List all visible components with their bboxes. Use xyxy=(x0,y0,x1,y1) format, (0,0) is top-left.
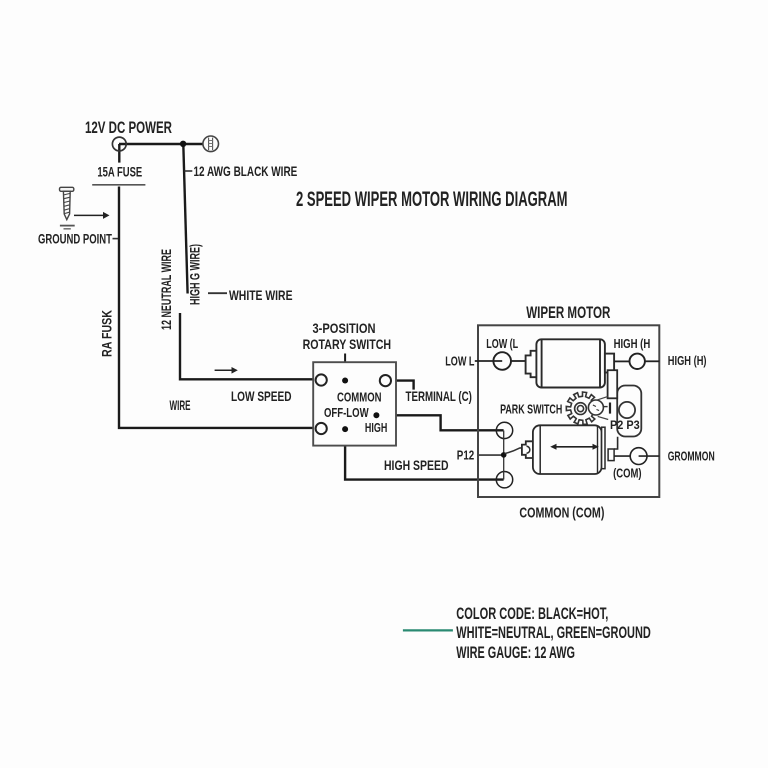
svg-text:WIPER MOTOR: WIPER MOTOR xyxy=(526,304,610,322)
svg-text:LOW L: LOW L xyxy=(445,354,474,369)
svg-text:(COM): (COM) xyxy=(613,466,642,481)
svg-text:HIGH G WIRE): HIGH G WIRE) xyxy=(187,244,203,305)
svg-text:WHITE WIRE: WHITE WIRE xyxy=(229,287,293,303)
svg-text:P12: P12 xyxy=(457,447,474,462)
svg-text:COLOR CODE: BLACK=HOT,: COLOR CODE: BLACK=HOT, xyxy=(456,605,608,623)
svg-text:ROTARY SWITCH: ROTARY SWITCH xyxy=(303,336,392,352)
svg-text:WHITE=NEUTRAL, GREEN=GROUND: WHITE=NEUTRAL, GREEN=GROUND xyxy=(456,624,651,642)
svg-text:TERMINAL (C): TERMINAL (C) xyxy=(406,388,472,404)
svg-text:GROUND POINT: GROUND POINT xyxy=(38,231,113,246)
svg-text:LOW SPEED: LOW SPEED xyxy=(231,388,292,404)
svg-text:WIRE GAUGE: 12 AWG: WIRE GAUGE: 12 AWG xyxy=(456,644,575,662)
svg-text:RA FUSK: RA FUSK xyxy=(99,310,115,357)
svg-text:P2 P3: P2 P3 xyxy=(610,418,640,432)
svg-text:12V DC POWER: 12V DC POWER xyxy=(85,118,172,137)
svg-text:HIGH SPEED: HIGH SPEED xyxy=(384,457,449,473)
svg-text:HIGH (H): HIGH (H) xyxy=(668,353,707,368)
svg-text:12 AWG BLACK WIRE: 12 AWG BLACK WIRE xyxy=(194,163,298,179)
svg-text:HIGH: HIGH xyxy=(365,420,387,435)
svg-text:PARK SWITCH: PARK SWITCH xyxy=(500,402,562,417)
svg-text:12 NEUTRAL WIRE: 12 NEUTRAL WIRE xyxy=(158,249,174,330)
svg-text:GROMMON: GROMMON xyxy=(668,448,715,463)
svg-text:15A FUSE: 15A FUSE xyxy=(97,164,142,180)
svg-text:LOW (L: LOW (L xyxy=(486,336,518,351)
svg-text:COMMON (COM): COMMON (COM) xyxy=(519,505,604,522)
svg-text:OFF-LOW: OFF-LOW xyxy=(324,405,369,420)
svg-text:3-POSITION: 3-POSITION xyxy=(313,320,376,336)
svg-text:HIGH (H: HIGH (H xyxy=(614,336,651,351)
svg-text:WIRE: WIRE xyxy=(170,397,191,413)
svg-text:2 SPEED WIPER MOTOR WIRING DIA: 2 SPEED WIPER MOTOR WIRING DIAGRAM xyxy=(296,188,568,211)
svg-text:COMMON: COMMON xyxy=(337,389,382,404)
